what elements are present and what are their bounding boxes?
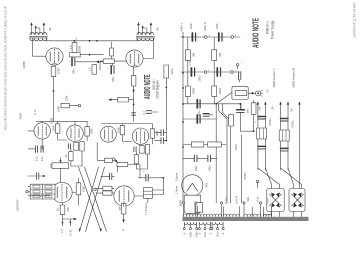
resistor RP5 [235, 91, 247, 96]
wire [136, 152, 147, 169]
capacitor CF3 [281, 118, 289, 120]
svg-text:3W: 3W [192, 53, 196, 57]
tube V2a 5687 left A [34, 123, 50, 139]
capacitor CP6 [237, 109, 245, 111]
resistor R22 [118, 97, 129, 102]
svg-text:100u: 100u [111, 76, 115, 82]
wire [165, 78, 167, 141]
capacitor CP8 [194, 155, 197, 161]
terminal [204, 71, 207, 74]
svg-text:220K: 220K [57, 68, 61, 74]
svg-text:3K: 3K [48, 27, 52, 31]
wire [155, 133, 167, 141]
node arrow [96, 61, 99, 64]
transformer T1 output left [29, 25, 47, 41]
resistor network R1 input grid [30, 184, 55, 199]
svg-text:100n: 100n [208, 165, 212, 171]
capacitor CP3 on bus [196, 100, 198, 108]
node arrow up [132, 88, 134, 91]
capacitor C13 coupling [161, 130, 163, 136]
capacitor C14 coupling [161, 138, 163, 144]
tube V6 6SN7 input right [114, 186, 134, 206]
potentiometer P1 [52, 163, 69, 169]
logo audio note power supply [251, 18, 274, 48]
capacitor C12 cathode bypass right [110, 66, 112, 74]
capacitor C3 [68, 144, 70, 149]
wire ground stubs [63, 219, 71, 226]
wire heater line B [75, 61, 111, 63]
capacitor CP9 [208, 155, 211, 161]
capacitor CF4 [281, 147, 289, 149]
regulator REG1 [257, 128, 267, 139]
svg-text:100K: 100K [57, 106, 61, 112]
resistor R26 ladder [144, 188, 153, 199]
wire [86, 121, 88, 141]
regulator REG2 [279, 130, 289, 141]
terminal [231, 71, 234, 74]
node 2 [76, 37, 78, 41]
wire T1 primary right lead to B+ [45, 39, 47, 41]
wire 300B right cathode down [133, 67, 135, 76]
labels primary terminals [182, 231, 225, 237]
terminal input jack right [94, 188, 96, 190]
wire [133, 86, 135, 122]
terminal [205, 36, 208, 39]
terminal input jack [26, 191, 28, 193]
capacitor C18 series [132, 113, 136, 115]
node dot [165, 87, 167, 142]
wire input [28, 187, 30, 192]
wire HT rail left [182, 32, 184, 202]
svg-text:0.1u: 0.1u [33, 109, 37, 115]
resistor R25 [134, 155, 138, 164]
terminal circles secondary [182, 202, 184, 204]
bridge rectifier BR2 [289, 189, 305, 212]
wire [28, 131, 43, 149]
svg-text:115v: 115v [203, 231, 207, 237]
resistor R20 cathode right [103, 59, 114, 63]
resistor R4 anode load [76, 183, 81, 195]
capacitor CA3 [190, 68, 192, 76]
resistor R15 [120, 125, 124, 134]
svg-text:6SN7GT: 6SN7GT [16, 199, 20, 211]
svg-text:230v: 230v [189, 231, 193, 237]
svg-text:zl: zl [121, 229, 125, 232]
node rail dots [182, 36, 184, 148]
tube V7 rectifier 5U4G [182, 175, 203, 214]
wire [215, 104, 217, 203]
svg-text:6.3v R: 6.3v R [235, 196, 239, 204]
svg-text:0V: 0V [266, 89, 270, 92]
wire T2 left lead joins B+ [137, 39, 139, 41]
wire [70, 105, 79, 107]
bridge rectifier BR1 [267, 189, 284, 212]
svg-text:1b0: 1b0 [118, 206, 122, 211]
svg-text:E+B-: E+B- [68, 229, 72, 235]
logo audio note circuit diagram [143, 74, 159, 99]
svg-text:AUDIO NOTE: AUDIO NOTE [143, 74, 152, 99]
wire verticals to transformer [236, 135, 242, 203]
svg-text:1.0mm: 1.0mm [175, 185, 179, 194]
capacitor CF1 [258, 116, 266, 118]
svg-text:0.1u: 0.1u [40, 155, 44, 161]
capacitor C15 [146, 111, 151, 114]
svg-text:100K: 100K [52, 125, 56, 131]
resistor RP1 [185, 50, 190, 61]
resistor R11 [80, 142, 84, 151]
svg-text:115v: 115v [216, 231, 220, 237]
resistor R10 hum pot [70, 53, 81, 57]
capacitor CP5 [238, 72, 240, 80]
svg-text:5687: 5687 [19, 112, 23, 119]
svg-text:3W: 3W [218, 53, 222, 57]
winding 5v [244, 214, 261, 216]
resistor RP6 [229, 115, 234, 126]
tube V5b 5687 right B [132, 128, 148, 144]
resistor RP4 [212, 86, 217, 97]
wire [71, 149, 82, 166]
resistor R3 cathode [60, 205, 65, 214]
svg-text:5A: 5A [271, 106, 275, 109]
svg-text:1b: 1b [56, 208, 60, 211]
svg-text:390R: 390R [218, 88, 222, 94]
svg-text:0.5mm: 0.5mm [175, 172, 179, 181]
label heater L [272, 68, 276, 88]
resistor R7 [74, 143, 79, 151]
primary group 3 [212, 222, 223, 224]
terminal [231, 36, 234, 39]
wire R9 top [74, 41, 76, 43]
svg-text:280u: 280u [189, 23, 193, 29]
resistor RP9 [208, 142, 222, 147]
wire T2 primary right lead [143, 39, 153, 59]
svg-text:L b: L b [60, 229, 64, 233]
capacitor C17 [146, 174, 148, 181]
winding aux [263, 214, 271, 216]
svg-text:1.5: 1.5 [68, 45, 72, 49]
svg-text:5v4u: 5v4u [246, 196, 250, 202]
svg-text:Mac HD:Users:Shared:Audio Note: Mac HD:Users:Shared:Audio Note Kits:scan… [4, 7, 8, 130]
svg-text:100n: 100n [194, 165, 198, 171]
wire heater line A [80, 54, 103, 56]
label 0V [266, 89, 270, 92]
resistor R30 grid stopper [110, 48, 114, 56]
potentiometer P2 [117, 162, 128, 166]
label 5687 [19, 112, 23, 119]
svg-text:440V R: 440V R [203, 22, 207, 31]
resistor R31 [105, 158, 113, 162]
svg-text:300B Heater R: 300B Heater R [291, 67, 295, 88]
wire driver anode rail right [102, 123, 132, 125]
wire diagonal [216, 93, 232, 104]
resistor R28 cathode right [121, 203, 126, 214]
terminal HT out [236, 64, 239, 67]
wire snubber loop [232, 87, 248, 100]
svg-text:1K: 1K [64, 154, 68, 157]
capacitor C6 input right [110, 173, 112, 179]
wire coupling [53, 77, 55, 122]
wire bridges down [272, 212, 302, 217]
terminal circles primary [183, 228, 224, 230]
svg-text:0.1u: 0.1u [34, 155, 38, 161]
wire h bus [183, 103, 240, 105]
resistor R23 [139, 146, 144, 154]
svg-text:Circuit Diagram: Circuit Diagram [155, 80, 159, 98]
transformer T3 primary group 1 [184, 222, 196, 224]
capacitor CA2 [218, 33, 220, 41]
tube V1 300B left [46, 48, 63, 65]
svg-text:100K: 100K [116, 127, 120, 133]
svg-text:280u: 280u [198, 75, 202, 81]
transformer T3 core [183, 217, 309, 221]
capacitor CF2 [258, 145, 266, 147]
svg-text:300B: 300B [22, 61, 26, 68]
svg-text:PRI: PRI [205, 183, 209, 188]
resistor RP2 [212, 50, 217, 61]
node dot [53, 90, 55, 92]
wire [131, 124, 152, 145]
terminal [78, 104, 80, 106]
svg-text:220k: 220k [65, 95, 69, 101]
capacitor C1 [35, 146, 37, 153]
components below drivers right: capacitor C16 [134, 147, 136, 152]
resistor R14 grid right [103, 186, 112, 190]
resistor RP8 [191, 142, 204, 147]
tube V4 300B right [126, 50, 143, 67]
svg-text:4700u: 4700u [268, 118, 272, 126]
resistor R9 anode feed [72, 42, 77, 52]
winding 6.3v R [223, 214, 239, 216]
wire [101, 175, 115, 177]
svg-text:0.1: 0.1 [142, 110, 146, 114]
capacitor CA4 [216, 68, 218, 76]
wire [72, 178, 78, 205]
svg-text:3K: 3K [156, 27, 160, 31]
wire 0V line [299, 105, 301, 189]
wire with arrow [112, 99, 134, 101]
resistor R8 grid leak 300B [51, 66, 56, 76]
svg-text:300B: 300B [77, 46, 81, 52]
resistor R13 [61, 103, 70, 107]
capacitor CA1 [191, 33, 193, 41]
wire jogging pair [219, 104, 231, 203]
wire input right [96, 188, 114, 193]
winding 6.3v L [198, 214, 222, 216]
svg-text:10K: 10K [49, 163, 53, 168]
resistor RP3 [185, 86, 190, 97]
wire [100, 61, 126, 70]
svg-text:13/9/2004 11:53:04 AM: 13/9/2004 11:53:04 AM [353, 3, 357, 38]
svg-text:5U4G: 5U4G [243, 172, 247, 179]
svg-text:300B Kit 1: 300B Kit 1 [266, 21, 270, 34]
resistor R6 [85, 127, 89, 136]
node arrow [298, 101, 300, 104]
resistor R19 [92, 65, 96, 75]
capacitor CP4 on bus 2 [196, 115, 198, 123]
wire T1 primary left lead to plate [33, 39, 46, 57]
node T2 secondary arrows [137, 22, 152, 28]
svg-text:100K: 100K [155, 130, 159, 136]
svg-text:220K: 220K [170, 68, 174, 74]
svg-text:100K: 100K [90, 128, 94, 134]
wire interconnect cross pair [79, 167, 102, 232]
resistor RP7 [251, 103, 256, 115]
svg-text:1.5: 1.5 [87, 67, 91, 71]
terminal aux [256, 180, 258, 182]
transformer T2 output right [136, 25, 154, 41]
tube V3 6SN7 input left [52, 182, 72, 202]
svg-text:10b: 10b [66, 207, 70, 212]
svg-text:390R: 390R [192, 88, 196, 94]
svg-text:300B: 300B [50, 118, 54, 124]
resistor R21 [131, 76, 136, 86]
svg-text:E: E [221, 232, 225, 234]
wire [240, 100, 253, 131]
wire strip B to bridge [281, 168, 302, 189]
wire filter row 1 [181, 36, 240, 38]
resistor R14b grid right [103, 191, 112, 195]
capacitor C11 cathode bypass [71, 58, 73, 66]
wire driver anode rail [37, 120, 67, 122]
wire bus 2 [183, 118, 216, 120]
svg-text:50u: 50u [246, 108, 250, 113]
svg-text:5A: 5A [290, 108, 294, 111]
wire [147, 198, 149, 202]
svg-text:100K: 100K [82, 186, 86, 192]
primary group 2 [199, 222, 210, 224]
filament strip B wires [281, 105, 289, 171]
svg-text:280u: 280u [215, 23, 219, 29]
left edge file caption [4, 7, 8, 130]
svg-text:440V L: 440V L [180, 22, 184, 31]
svg-text:AUDIO NOTE: AUDIO NOTE [251, 18, 260, 48]
resistor R12 [69, 152, 73, 161]
wire primary leads [184, 222, 223, 227]
capacitor CP7 [203, 113, 209, 115]
wire [122, 124, 131, 142]
wire [58, 121, 67, 140]
svg-text:0-5v: 0-5v [266, 198, 270, 204]
wire strip A to bridge [258, 168, 280, 189]
node arrows down [79, 229, 103, 232]
wire cathode bottom [63, 203, 75, 223]
right edge date caption [353, 3, 357, 38]
resistor R17 dropper [164, 65, 169, 78]
wire [248, 92, 255, 94]
wire [152, 111, 158, 113]
transformer T3 mains: HT secondary winding [184, 214, 196, 216]
svg-text:100u: 100u [72, 68, 76, 74]
svg-text:Power Supply: Power Supply [271, 20, 275, 39]
tube V2b 5687 left B [67, 125, 84, 142]
node arrows strip A [257, 101, 267, 104]
filament strip A wires [258, 105, 266, 171]
node B+ junction [74, 40, 98, 42]
svg-text:860R: 860R [179, 200, 183, 206]
svg-text:4700u: 4700u [291, 120, 295, 128]
wire interconnect cross pair 2 [85, 167, 107, 232]
wire [28, 175, 42, 177]
capacitor C5 input [37, 173, 39, 179]
ground chassis [256, 91, 261, 96]
resistor R16 [150, 129, 154, 138]
wire [28, 195, 50, 197]
resistor R5 [56, 124, 60, 133]
wire B+ rail [46, 40, 137, 42]
capacitor C2 [41, 146, 43, 153]
wire filter row 2 [181, 71, 240, 73]
wire secondary leads [184, 204, 272, 216]
wire [152, 178, 163, 195]
resistor R24 [145, 145, 149, 154]
svg-text:C10: C10 [188, 60, 192, 65]
node arrows strip B [279, 101, 289, 104]
svg-text:6.3v L: 6.3v L [224, 196, 228, 204]
svg-text:300B Heater L: 300B Heater L [272, 68, 276, 88]
node arrow input [43, 175, 46, 178]
node dot [133, 104, 135, 106]
label heater R [291, 67, 295, 88]
tube V5a 5687 right A [100, 126, 116, 142]
svg-text:6.3v: 6.3v [256, 196, 260, 202]
node dot [89, 54, 91, 56]
svg-text:1 x 0.5mm: 1 x 0.5mm [144, 202, 148, 215]
node T1 secondary arrows [30, 22, 45, 28]
